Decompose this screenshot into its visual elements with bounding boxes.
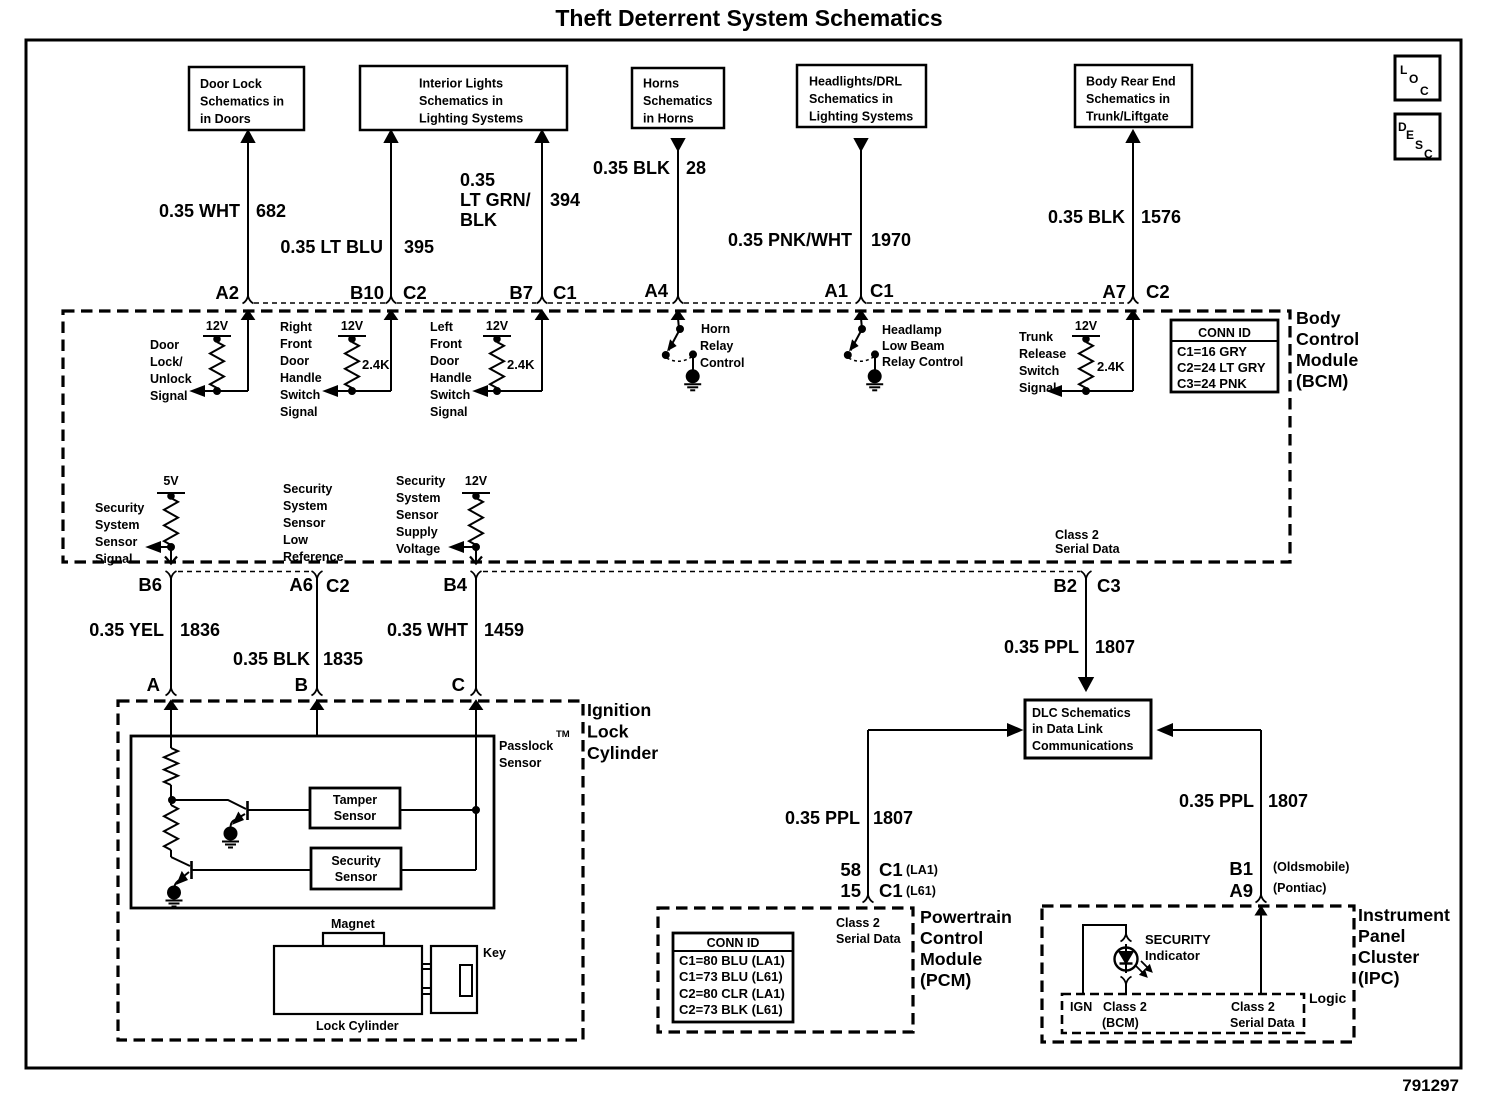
- svg-text:(IPC): (IPC): [1358, 968, 1400, 988]
- wire 1807 from IPC to DLC: [1159, 725, 1261, 896]
- svg-text:Relay: Relay: [700, 339, 733, 353]
- Q1 ground: [225, 828, 237, 840]
- pin B10/C2 connector fork: [386, 296, 397, 304]
- svg-text:1836: 1836: [180, 620, 220, 640]
- svg-text:791297: 791297: [1402, 1076, 1459, 1095]
- PCM pin connector fork: [863, 895, 874, 903]
- pin A1 / C1 labels: [824, 280, 893, 301]
- svg-text:Supply: Supply: [396, 525, 438, 539]
- svg-text:12V: 12V: [1075, 319, 1098, 333]
- svg-text:B: B: [295, 674, 308, 695]
- svg-text:C: C: [1424, 147, 1433, 161]
- svg-text:(Oldsmobile): (Oldsmobile): [1273, 860, 1349, 874]
- Trunk Release Switch Signal label: [1019, 330, 1066, 395]
- svg-text:(BCM): (BCM): [1296, 371, 1348, 391]
- pin B7 / C1 labels: [509, 282, 576, 303]
- svg-text:1459: 1459: [484, 620, 524, 640]
- svg-text:Left: Left: [430, 320, 454, 334]
- svg-text:Trunk/Liftgate: Trunk/Liftgate: [1086, 110, 1169, 124]
- svg-text:1807: 1807: [1095, 637, 1135, 657]
- svg-text:Door Lock: Door Lock: [200, 77, 262, 91]
- ILC entry arrow at A: [166, 701, 177, 748]
- svg-text:Module: Module: [1296, 350, 1358, 370]
- headlamp relay ground: [866, 354, 883, 390]
- BCM entry arrow at A4: [673, 311, 684, 329]
- svg-text:Headlamp: Headlamp: [882, 323, 942, 337]
- PCM module label: [920, 907, 1012, 990]
- node / signal line to wire B7: [475, 387, 542, 396]
- Key label: [483, 946, 506, 960]
- pin B10 / C2 labels: [350, 282, 427, 303]
- node / signal line to wire B10: [325, 387, 391, 396]
- svg-text:Powertrain: Powertrain: [920, 907, 1012, 927]
- Body Control Module dashed box: [63, 311, 1290, 562]
- pin A1/C1 connector fork: [856, 296, 867, 304]
- svg-text:C2: C2: [403, 282, 427, 303]
- wire below indicator to logic box: [1125, 984, 1127, 994]
- magnet box: [323, 933, 384, 946]
- svg-text:Lock/: Lock/: [150, 355, 183, 369]
- pin A4 label: [644, 280, 668, 301]
- node / signal line to wire A7: [1049, 387, 1133, 396]
- svg-text:Indicator: Indicator: [1145, 948, 1200, 963]
- wire 395 from Interior Lights box to BCM pin B10/C2: [385, 131, 397, 296]
- key shaft tabs: [422, 964, 431, 994]
- wire down to pin B4 with exit arrow: [470, 547, 482, 564]
- Passlock TM Sensor label: [499, 729, 570, 770]
- pin A4 connector fork: [673, 296, 684, 304]
- pin A6 / C2 labels: [289, 574, 349, 596]
- horn relay switch arm: [669, 326, 684, 351]
- svg-text:A4: A4: [644, 280, 668, 301]
- svg-text:0.35 PPL: 0.35 PPL: [1179, 791, 1254, 811]
- svg-text:0.35 BLK: 0.35 BLK: [593, 158, 670, 178]
- pin C connector fork: [471, 688, 482, 696]
- wire 1807 from B2/C3 to DLC: [1080, 577, 1093, 690]
- svg-text:C2: C2: [1146, 281, 1170, 302]
- svg-text:CONN ID: CONN ID: [1198, 326, 1251, 340]
- BCM entry arrow at B7/C1: [537, 311, 548, 391]
- svg-text:C: C: [1420, 84, 1429, 98]
- svg-text:2.4K: 2.4K: [1097, 359, 1125, 374]
- svg-text:in Horns: in Horns: [643, 112, 694, 126]
- svg-text:12V: 12V: [341, 319, 364, 333]
- svg-text:(LA1): (LA1): [906, 863, 938, 877]
- svg-text:Lock Cylinder: Lock Cylinder: [316, 1019, 399, 1033]
- Logic label: [1309, 990, 1347, 1006]
- resistor 2.4K (trunk release circuit): [1079, 336, 1125, 391]
- 12V supply (right front door circuit): [338, 319, 366, 342]
- Security System Sensor Supply Voltage label: [396, 474, 445, 556]
- wire 682 from Door Lock box to BCM pin A2: [242, 131, 254, 296]
- Left Front Door Handle Switch Signal label: [430, 320, 472, 419]
- svg-text:0.35: 0.35: [460, 170, 495, 190]
- svg-text:Class 2: Class 2: [1103, 1000, 1147, 1014]
- BCM entry arrow at B10/C2: [386, 311, 397, 391]
- svg-text:0.35 BLK: 0.35 BLK: [1048, 207, 1125, 227]
- svg-text:Signal: Signal: [150, 389, 188, 403]
- PCM CONN ID table: [673, 933, 793, 1022]
- pin A2 label: [215, 282, 239, 303]
- svg-text:Door: Door: [150, 338, 179, 352]
- svg-text:0.35 YEL: 0.35 YEL: [89, 620, 164, 640]
- svg-text:Front: Front: [280, 337, 313, 351]
- Right Front Door Handle Switch Signal label: [280, 320, 322, 419]
- svg-text:C: C: [452, 674, 465, 695]
- wire Tamper Sensor to node on wire C: [400, 807, 479, 813]
- pin B6 label: [138, 574, 162, 595]
- svg-text:Door: Door: [280, 354, 309, 368]
- svg-text:Schematics in: Schematics in: [200, 95, 284, 109]
- Passlock Sensor box: [131, 736, 494, 908]
- svg-text:A2: A2: [215, 282, 239, 303]
- pin B7/C1 connector fork: [537, 296, 548, 304]
- svg-text:Security: Security: [331, 854, 380, 868]
- 12V supply (trunk release circuit): [1072, 319, 1100, 342]
- wire label 0.35 LT BLU 395: [280, 237, 434, 257]
- pin B connector fork: [312, 688, 323, 696]
- svg-text:C1=73 BLU (L61): C1=73 BLU (L61): [679, 969, 783, 984]
- svg-text:5V: 5V: [163, 474, 179, 488]
- svg-text:Ignition: Ignition: [587, 700, 651, 720]
- svg-text:in Doors: in Doors: [200, 112, 251, 126]
- Horn Relay Control label: [700, 322, 744, 370]
- 5V supply (sensor signal circuit): [157, 474, 185, 499]
- svg-text:Signal: Signal: [1019, 381, 1057, 395]
- svg-text:C2=80 CLR (LA1): C2=80 CLR (LA1): [679, 986, 785, 1001]
- DLC Schematics reference box: [1025, 700, 1151, 758]
- svg-text:2.4K: 2.4K: [507, 357, 535, 372]
- svg-text:Sensor: Sensor: [95, 535, 138, 549]
- horn relay ground: [684, 354, 701, 390]
- wire label 0.35 PNK/WHT 1970: [728, 230, 911, 250]
- wire 28 from Horns box to BCM pin A4: [672, 139, 684, 296]
- Security System Sensor Low Reference label: [283, 482, 343, 564]
- resistor (door lock circuit): [210, 336, 224, 391]
- BCM connector dashed line (top): [254, 302, 1127, 304]
- svg-text:C1: C1: [879, 859, 903, 880]
- svg-text:Security: Security: [283, 482, 332, 496]
- svg-text:Sensor: Sensor: [499, 756, 542, 770]
- reference box: Interior Lights Schematics in Lighting Systems: [360, 66, 567, 130]
- svg-text:Serial Data: Serial Data: [1055, 542, 1121, 556]
- wire 1576 from Body Rear End box to BCM pin A7/C2: [1127, 131, 1139, 296]
- svg-text:Low Beam: Low Beam: [882, 339, 945, 353]
- Magnet label: [331, 917, 376, 931]
- wire label 0.35 PPL 1807 (BCM to DLC): [1004, 637, 1135, 657]
- svg-text:0.35 PPL: 0.35 PPL: [785, 808, 860, 828]
- svg-text:394: 394: [550, 190, 580, 210]
- svg-text:Communications: Communications: [1032, 739, 1133, 753]
- svg-text:Interior Lights: Interior Lights: [419, 77, 503, 91]
- svg-text:L: L: [1400, 63, 1407, 77]
- wire label 0.35 PPL 1807 (IPC to DLC): [1179, 791, 1308, 811]
- lock cylinder box: [274, 946, 422, 1014]
- svg-text:Horn: Horn: [701, 322, 730, 336]
- svg-text:Unlock: Unlock: [150, 372, 192, 386]
- svg-text:A: A: [147, 674, 160, 695]
- svg-text:Release: Release: [1019, 347, 1066, 361]
- svg-text:O: O: [1409, 72, 1418, 86]
- svg-text:Signal: Signal: [95, 552, 133, 566]
- wire 1835 from A6/C2 to ignition lock pin B: [316, 577, 318, 688]
- reference box: Headlights/DRL Schematics in Lighting Systems: [797, 65, 926, 127]
- svg-text:C1: C1: [870, 280, 894, 301]
- pin 58 C1 (LA1) / 15 C1 (L61) labels: [840, 859, 938, 901]
- resistor 2.4K (right front door circuit): [345, 336, 390, 391]
- reference box: Body Rear End Schematics in Trunk/Liftgate: [1075, 65, 1192, 127]
- svg-text:Serial Data: Serial Data: [1230, 1016, 1296, 1030]
- svg-text:0.35 PPL: 0.35 PPL: [1004, 637, 1079, 657]
- sensor signal node and left arrow: [148, 543, 174, 552]
- svg-text:15: 15: [840, 880, 861, 901]
- Class 2 Serial Data label (IPC): [1230, 1000, 1296, 1030]
- svg-text:B4: B4: [443, 574, 467, 595]
- svg-text:CONN ID: CONN ID: [707, 936, 760, 950]
- Security Sensor box: [311, 848, 401, 889]
- svg-text:Switch: Switch: [280, 388, 320, 402]
- svg-text:A6: A6: [289, 574, 313, 595]
- pin B4 connector fork: [471, 571, 482, 579]
- svg-text:TM: TM: [556, 729, 570, 740]
- svg-text:Sensor: Sensor: [334, 809, 377, 823]
- svg-text:0.35 BLK: 0.35 BLK: [233, 649, 310, 669]
- wire 1970 from Headlights/DRL box to BCM pin A1/C1: [855, 139, 867, 296]
- svg-text:Voltage: Voltage: [396, 542, 440, 556]
- svg-text:Right: Right: [280, 320, 313, 334]
- BCM module label: [1296, 308, 1359, 391]
- IGN wire to logic: [1083, 925, 1126, 994]
- wire label 0.35 BLK 1576: [1048, 207, 1181, 227]
- svg-text:B2: B2: [1053, 575, 1077, 596]
- svg-text:Security: Security: [396, 474, 445, 488]
- key box: [431, 946, 477, 1013]
- pin C label: [452, 674, 465, 695]
- svg-text:System: System: [283, 499, 327, 513]
- svg-text:1576: 1576: [1141, 207, 1181, 227]
- svg-text:Low: Low: [283, 533, 308, 547]
- wire down to pin B6 with exit arrow: [165, 547, 177, 564]
- wire Q2 collector to Security Sensor: [192, 869, 311, 871]
- svg-text:Cluster: Cluster: [1358, 947, 1419, 967]
- svg-text:A9: A9: [1229, 880, 1253, 901]
- BCM entry arrow at A2: [243, 311, 254, 391]
- wire label 0.35 WHT 682: [159, 201, 286, 221]
- svg-text:28: 28: [686, 158, 706, 178]
- svg-text:Instrument: Instrument: [1358, 905, 1450, 925]
- Class 2 Serial Data label (PCM): [836, 916, 902, 946]
- svg-text:System: System: [95, 518, 139, 532]
- Headlamp Low Beam Relay Control label: [882, 323, 963, 369]
- svg-text:Sensor: Sensor: [283, 516, 326, 530]
- svg-text:Security: Security: [95, 501, 144, 515]
- svg-text:BLK: BLK: [460, 210, 497, 230]
- IPC entry arrow and wire to logic: [1256, 907, 1266, 994]
- document number: [1402, 1076, 1459, 1095]
- security indicator LED: [1115, 944, 1138, 973]
- wire label 0.35 PPL 1807 (PCM to DLC): [785, 808, 913, 828]
- svg-text:1970: 1970: [871, 230, 911, 250]
- connector fork above security indicator: [1121, 934, 1132, 942]
- LED light rays: [1136, 961, 1152, 977]
- svg-text:E: E: [1406, 128, 1414, 142]
- tamper transistor Q1: [174, 800, 248, 828]
- svg-text:1807: 1807: [1268, 791, 1308, 811]
- svg-text:0.35 LT BLU: 0.35 LT BLU: [280, 237, 383, 257]
- svg-text:C2: C2: [326, 575, 350, 596]
- svg-text:C1: C1: [553, 282, 577, 303]
- svg-text:C2=73 BLK (L61): C2=73 BLK (L61): [679, 1002, 783, 1017]
- svg-text:Schematics in: Schematics in: [1086, 92, 1170, 106]
- node / signal line to wire A2: [192, 387, 248, 396]
- svg-text:Signal: Signal: [430, 405, 468, 419]
- svg-text:System: System: [396, 491, 440, 505]
- pin A label: [147, 674, 160, 695]
- svg-text:A1: A1: [824, 280, 848, 301]
- Class 2 (BCM) label: [1102, 1000, 1147, 1030]
- svg-text:Horns: Horns: [643, 77, 679, 91]
- svg-text:Sensor: Sensor: [335, 870, 378, 884]
- IPC logic dashed box: [1062, 994, 1304, 1033]
- Tamper Sensor box: [310, 788, 400, 828]
- svg-text:A7: A7: [1102, 281, 1126, 302]
- pin B label: [295, 674, 308, 695]
- BCM entry arrow at A7/C2: [1128, 311, 1139, 391]
- DESC legend box: [1395, 114, 1440, 161]
- wire 1459 from B4 to ignition lock pin C: [475, 577, 477, 688]
- node between resistors: [169, 785, 175, 803]
- pin B2 / C3 labels: [1053, 575, 1120, 596]
- svg-text:Schematics in: Schematics in: [419, 94, 503, 108]
- security transistor Q2: [171, 857, 192, 887]
- sensor supply node and left arrow: [451, 543, 479, 552]
- svg-text:in Data Link: in Data Link: [1032, 722, 1103, 736]
- SECURITY Indicator label: [1145, 932, 1211, 963]
- svg-text:S: S: [1415, 138, 1423, 152]
- svg-text:58: 58: [840, 859, 861, 880]
- svg-text:Serial Data: Serial Data: [836, 932, 902, 946]
- svg-text:Class 2: Class 2: [836, 916, 880, 930]
- Powertrain Control Module dashed box: [658, 908, 913, 1032]
- svg-text:IGN: IGN: [1070, 1000, 1092, 1014]
- svg-text:Magnet: Magnet: [331, 917, 376, 931]
- Instrument Panel Cluster dashed box: [1042, 906, 1354, 1042]
- resistor (sensor signal circuit): [164, 493, 178, 547]
- svg-text:C3=24 PNK: C3=24 PNK: [1177, 376, 1247, 391]
- svg-text:Control: Control: [1296, 329, 1359, 349]
- svg-text:Relay Control: Relay Control: [882, 355, 963, 369]
- svg-text:C1=16 GRY: C1=16 GRY: [1177, 344, 1247, 359]
- Door Lock/Unlock Signal label: [150, 338, 192, 403]
- wire label 0.35 YEL 1836: [89, 620, 220, 640]
- reference box: Horns Schematics in Horns: [632, 68, 724, 128]
- horn relay contacts and dashed link: [663, 351, 696, 361]
- svg-text:0.35 WHT: 0.35 WHT: [159, 201, 240, 221]
- Lock Cylinder label: [316, 1019, 399, 1033]
- svg-text:(BCM): (BCM): [1102, 1016, 1139, 1030]
- svg-text:Switch: Switch: [1019, 364, 1059, 378]
- ILC module label: [587, 700, 658, 763]
- svg-text:Body Rear End: Body Rear End: [1086, 75, 1176, 89]
- svg-text:Trunk: Trunk: [1019, 330, 1053, 344]
- svg-text:Passlock: Passlock: [499, 739, 553, 753]
- svg-text:Door: Door: [430, 354, 459, 368]
- passlock lower resistor: [164, 800, 178, 857]
- svg-text:Schematics in: Schematics in: [809, 92, 893, 106]
- svg-text:682: 682: [256, 201, 286, 221]
- svg-text:Schematics: Schematics: [643, 94, 713, 108]
- Ignition Lock Cylinder dashed box: [118, 701, 583, 1040]
- svg-text:(PCM): (PCM): [920, 970, 971, 990]
- pin B6 connector fork: [166, 571, 177, 579]
- svg-text:Handle: Handle: [430, 371, 472, 385]
- svg-text:Key: Key: [483, 946, 506, 960]
- svg-text:0.35 PNK/WHT: 0.35 PNK/WHT: [728, 230, 852, 250]
- svg-text:395: 395: [404, 237, 434, 257]
- Class 2 Serial Data label (BCM): [1055, 528, 1121, 556]
- wire 1836 from B6 to ignition lock pin A: [170, 577, 172, 688]
- svg-text:Class 2: Class 2: [1055, 528, 1099, 542]
- reference box: Door Lock Schematics in in Doors: [189, 67, 304, 130]
- svg-text:Front: Front: [430, 337, 463, 351]
- svg-text:Lock: Lock: [587, 722, 629, 742]
- svg-text:Module: Module: [920, 949, 982, 969]
- wire label 0.35 WHT 1459: [387, 620, 524, 640]
- wire Q1 collector to Tamper Sensor: [248, 809, 310, 811]
- svg-text:2.4K: 2.4K: [362, 357, 390, 372]
- IGN label: [1070, 1000, 1092, 1014]
- 12V supply (sensor supply circuit): [462, 474, 490, 499]
- svg-text:Headlights/DRL: Headlights/DRL: [809, 75, 902, 89]
- svg-text:(L61): (L61): [906, 884, 936, 898]
- svg-text:DLC Schematics: DLC Schematics: [1032, 706, 1131, 720]
- svg-text:Reference: Reference: [283, 550, 343, 564]
- pin B1 (Oldsmobile) / A9 (Pontiac) labels: [1229, 858, 1349, 901]
- svg-text:B7: B7: [509, 282, 533, 303]
- svg-text:Control: Control: [920, 928, 983, 948]
- svg-text:Switch: Switch: [430, 388, 470, 402]
- 12V supply (left front door circuit): [483, 319, 511, 342]
- connector fork below security indicator: [1121, 977, 1132, 985]
- pin A7 / C2 labels: [1102, 281, 1169, 302]
- pin B2/C3 connector fork: [1081, 571, 1092, 579]
- BCM connector dashed line (bottom): [178, 571, 1080, 573]
- wire Security Sensor to wire C: [401, 869, 476, 871]
- svg-text:0.35 WHT: 0.35 WHT: [387, 620, 468, 640]
- headlamp relay switch arm: [851, 326, 866, 351]
- svg-text:C1: C1: [879, 880, 903, 901]
- svg-text:Panel: Panel: [1358, 926, 1405, 946]
- wire 1807 from PCM to DLC: [868, 725, 1021, 896]
- IPC pin connector fork: [1256, 895, 1267, 903]
- BCM CONN ID table: [1171, 320, 1278, 392]
- svg-text:C3: C3: [1097, 575, 1121, 596]
- pin A6/C2 connector fork: [312, 571, 323, 579]
- svg-text:Sensor: Sensor: [396, 508, 439, 522]
- svg-text:SECURITY: SECURITY: [1145, 932, 1211, 947]
- LOC legend box: [1395, 56, 1440, 100]
- IPC module label: [1358, 905, 1450, 988]
- key inner slot: [460, 965, 472, 996]
- wire label 0.35 BLK 1835: [233, 649, 363, 669]
- resistor 2.4K (left front door circuit): [490, 336, 535, 391]
- svg-text:Theft Deterrent System Schemat: Theft Deterrent System Schematics: [555, 5, 942, 31]
- svg-text:Lighting Systems: Lighting Systems: [419, 112, 523, 126]
- svg-text:12V: 12V: [486, 319, 509, 333]
- headlamp relay contacts and dashed link: [845, 351, 878, 361]
- pin B4 label: [443, 574, 467, 595]
- svg-text:Tamper: Tamper: [333, 793, 377, 807]
